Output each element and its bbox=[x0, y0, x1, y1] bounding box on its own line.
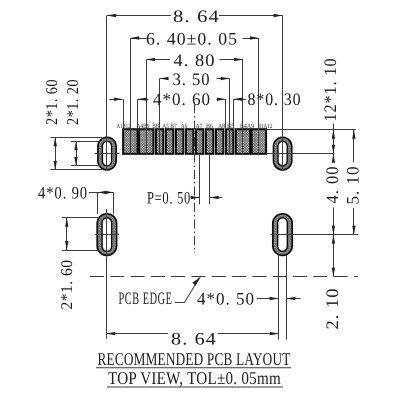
dim 3.50: dimension line bbox=[160, 78, 167, 80]
dim 4.80: dimension line bbox=[146, 59, 170, 61]
PCB EDGE leader line with arrow bbox=[175, 302, 185, 304]
dim 4*0.90: shaft and arrows at hole edges bbox=[89, 192, 114, 194]
dim 6.40±0.05: right extension (pad B1A12 center) bbox=[258, 38, 260, 154]
dim 4*0.60: extension lines at pad A1B12 edges bbox=[123, 99, 125, 129]
svg-text:RECOMMENDED PCB LAYOUT: RECOMMENDED PCB LAYOUT bbox=[98, 349, 291, 369]
svg-text:2*1. 20: 2*1. 20 bbox=[63, 79, 82, 125]
svg-text:2*1. 60: 2*1. 60 bbox=[57, 260, 76, 310]
dim 2*1.60 upper-left: extension lines at hole top/bottom bbox=[51, 137, 103, 139]
dim P=0.50: pitch extension lines below pads A7/B6 bbox=[199, 154, 201, 204]
dim 8*0.30: arrows outside pad edges bbox=[217, 99, 226, 101]
dim 2*1.20 upper-left: dimension line with arrows bbox=[76, 141, 78, 166]
crosshair bottom-left hole bbox=[95, 234, 119, 236]
svg-text:12*1. 10: 12*1. 10 bbox=[320, 58, 340, 122]
dim 8.64 bottom: dimension line bbox=[106, 333, 168, 335]
pad B6 bbox=[206, 129, 213, 154]
dim 8.64 top: right extension through top-right hole bbox=[282, 16, 284, 171]
svg-text:A6: A6 bbox=[181, 123, 188, 130]
svg-text:B6: B6 bbox=[206, 123, 214, 130]
pad A8 bbox=[216, 129, 223, 154]
dim 4*0.50: slot edge extension lines below bottom-right hole bbox=[278, 255, 280, 339]
title underline 1 bbox=[96, 367, 291, 369]
dim 2*1.20 upper-left: extension lines at slot top/bottom bbox=[71, 141, 100, 143]
extension line pad-bottom level to right bbox=[266, 153, 334, 155]
dim 4.80: left extension (pad A4B9 center) bbox=[146, 60, 148, 154]
dim 8.64 top: left extension through top-left hole bbox=[106, 16, 108, 171]
dim 2*1.60 lower-left: dimension line with arrows bbox=[66, 218, 68, 250]
svg-text:4*0. 50: 4*0. 50 bbox=[197, 288, 255, 308]
hole bottom-right inner slot bbox=[278, 218, 288, 252]
crosshair top-right hole bbox=[270, 153, 295, 155]
svg-text:4*0. 60: 4*0. 60 bbox=[153, 89, 211, 109]
svg-text:TOP VIEW, TOL±0. 05mm: TOP VIEW, TOL±0. 05mm bbox=[108, 368, 281, 388]
dim 2.10: dimension line bbox=[333, 235, 335, 277]
dim 4.00: dimension line bbox=[333, 154, 335, 162]
dim P=0.50: arrows bbox=[191, 197, 200, 199]
svg-text:4. 80: 4. 80 bbox=[174, 50, 216, 70]
dim 2*1.60 lower-left: extension lines at slot top/bottom bbox=[62, 217, 98, 219]
svg-text:A4B9: A4B9 bbox=[137, 123, 150, 130]
dim 3.50: right extension (pad B5 center) bbox=[229, 79, 231, 154]
extension line lower-hole-center level to right bbox=[292, 234, 358, 236]
hole bottom-left outer ring bbox=[97, 214, 116, 256]
crosshair top-left hole bbox=[95, 153, 120, 155]
svg-text:4*0. 90: 4*0. 90 bbox=[38, 183, 88, 203]
svg-text:5. 10: 5. 10 bbox=[343, 166, 363, 205]
svg-text:A7: A7 bbox=[196, 123, 204, 130]
svg-text:B5: B5 bbox=[227, 123, 234, 130]
dim 4.80: right extension (pad B4A9 center) bbox=[242, 60, 244, 154]
dim 5.10: dimension line bbox=[353, 130, 355, 162]
svg-text:8. 64: 8. 64 bbox=[171, 328, 217, 348]
svg-text:A8: A8 bbox=[218, 123, 225, 130]
svg-text:6. 40±0. 05: 6. 40±0. 05 bbox=[146, 28, 238, 48]
dim 4*0.50: arrows bbox=[257, 298, 278, 300]
title underline 2 bbox=[107, 386, 283, 388]
svg-text:3. 50: 3. 50 bbox=[173, 69, 211, 89]
pad B4A9 bbox=[236, 129, 250, 154]
svg-text:PCB EDGE: PCB EDGE bbox=[119, 288, 173, 308]
pad A4B9 bbox=[139, 129, 153, 154]
dim 3.50: left extension (pad B8 center) bbox=[159, 79, 161, 154]
svg-text:8. 64: 8. 64 bbox=[173, 6, 220, 26]
centerline (vertical dash-dot) bbox=[194, 104, 196, 253]
extension line pad-top level to right bbox=[266, 129, 356, 131]
pad A5 bbox=[166, 129, 173, 154]
hole bottom-right outer ring bbox=[273, 214, 292, 256]
hole top-right outer ring bbox=[274, 137, 292, 170]
dim 6.40±0.05: left extension (pad A1B12 center) bbox=[130, 38, 132, 154]
pad B8 bbox=[156, 129, 163, 154]
svg-text:B8: B8 bbox=[152, 123, 159, 130]
svg-text:2. 10: 2. 10 bbox=[322, 288, 342, 330]
svg-text:B7: B7 bbox=[170, 123, 177, 130]
svg-text:P=0. 50: P=0. 50 bbox=[147, 188, 191, 208]
hole top-right inner slot bbox=[278, 141, 287, 166]
dim 4*0.90: extension lines down to hole bbox=[97, 192, 99, 213]
dim 6.40±0.05: dimension line bbox=[130, 38, 146, 40]
hole top-left outer ring bbox=[98, 137, 116, 170]
pad A1B12 bbox=[123, 129, 137, 154]
crosshair bottom-right hole bbox=[271, 234, 295, 236]
svg-text:B1A12: B1A12 bbox=[258, 123, 273, 130]
svg-text:8*0. 30: 8*0. 30 bbox=[248, 89, 302, 109]
pad B5 bbox=[226, 129, 233, 154]
pad A6 bbox=[186, 129, 193, 154]
hole bottom-left inner slot bbox=[102, 218, 112, 252]
lower-left hole centerline down to bottom dimension bbox=[106, 209, 108, 339]
svg-text:4. 00: 4. 00 bbox=[322, 166, 342, 204]
hole top-left inner slot bbox=[102, 141, 111, 166]
svg-text:A5: A5 bbox=[162, 123, 169, 130]
pad A7 bbox=[196, 129, 203, 154]
dim 4*0.60: arrows outside pad edges bbox=[110, 99, 123, 101]
dim 8*0.30: extension lines at pad B5 edges bbox=[225, 99, 227, 129]
pad B7 bbox=[176, 129, 183, 154]
dim 8.64 top: dimension line bbox=[107, 15, 171, 17]
svg-text:2*1. 60: 2*1. 60 bbox=[42, 79, 61, 125]
dim 2*1.60 upper-left: dimension line with arrows bbox=[55, 137, 57, 170]
dim 12*1.10: dimension line with arrows (pad height) bbox=[333, 124, 335, 154]
pad B1A12 bbox=[252, 129, 266, 154]
PCB edge dashed line bbox=[90, 276, 358, 278]
